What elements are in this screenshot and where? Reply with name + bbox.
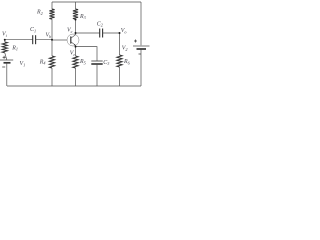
wire collector up to R3 bbox=[75, 19, 77, 34]
svg-text:C3: C3 bbox=[103, 60, 109, 66]
resistor R4 lower divider bbox=[49, 40, 54, 86]
svg-text:Vb: Vb bbox=[46, 32, 52, 38]
wire emitter to bypass corner bbox=[76, 45, 98, 61]
resistor R3 collector bbox=[73, 2, 78, 19]
transistor Q1 bbox=[67, 34, 79, 46]
resistor R6 load bbox=[117, 33, 122, 86]
battery V2 supply right bbox=[133, 40, 150, 87]
wire C2 to output node bbox=[103, 32, 120, 34]
svg-text:Vo: Vo bbox=[121, 28, 127, 34]
svg-text:V1: V1 bbox=[20, 61, 26, 67]
wire top supply rail bbox=[52, 1, 141, 3]
battery V1 input source left bbox=[0, 56, 13, 86]
svg-text:R5: R5 bbox=[79, 59, 86, 65]
capacitor C1 bbox=[33, 35, 36, 44]
wire right supply drop bbox=[140, 2, 142, 45]
svg-text:R2: R2 bbox=[36, 10, 43, 16]
svg-text:R3: R3 bbox=[79, 14, 86, 20]
node base bbox=[51, 39, 53, 41]
capacitor C3 bypass bbox=[91, 61, 102, 86]
wire input node to C1 bbox=[5, 39, 33, 41]
svg-text:Vc: Vc bbox=[67, 28, 73, 34]
wire collector node to C2 bbox=[76, 32, 100, 34]
wire bottom ground rail bbox=[7, 85, 141, 87]
node emitter bbox=[75, 46, 77, 48]
capacitor C2 bbox=[100, 29, 103, 38]
svg-text:R4: R4 bbox=[39, 59, 46, 65]
resistor R5 emitter bbox=[73, 47, 78, 86]
resistor R1 bbox=[2, 40, 7, 60]
svg-text:Ve: Ve bbox=[70, 51, 76, 57]
node output Vo bbox=[119, 32, 121, 34]
node collector bbox=[75, 32, 77, 34]
svg-text:R1: R1 bbox=[11, 45, 18, 51]
svg-text:V2: V2 bbox=[122, 45, 128, 51]
node Vi input bbox=[4, 39, 6, 41]
svg-text:Vi: Vi bbox=[2, 32, 8, 38]
svg-text:C2: C2 bbox=[97, 21, 103, 27]
node under R3 bbox=[75, 19, 77, 21]
svg-text:R6: R6 bbox=[123, 59, 131, 65]
resistor R2 bbox=[49, 2, 54, 40]
wire C1 to base node bbox=[36, 39, 52, 41]
svg-text:C1: C1 bbox=[30, 27, 36, 33]
wire base lead bbox=[52, 39, 67, 41]
